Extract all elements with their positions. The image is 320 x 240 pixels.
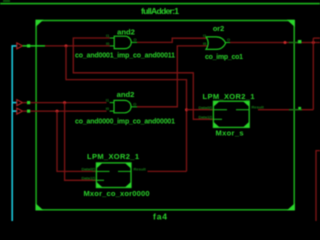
svg-text:Data1[]: Data1[] [198, 115, 212, 120]
s boundary green segment [289, 109, 302, 111]
and2 U2 output stub O [131, 106, 137, 108]
wire a tap down to xor0000 Data1 [65, 103, 97, 181]
and2 U2 input stub I0 [110, 110, 114, 112]
wire cin to and2 U1 I0 [45, 45, 110, 47]
and2 U1 input stub I1 [110, 37, 114, 39]
or2 U3 gate body [206, 37, 226, 50]
junction a tap [63, 101, 66, 104]
inner box corner triangle top-left [36, 20, 44, 27]
input port arrow b [17, 108, 23, 114]
svg-text:Result: Result [252, 105, 265, 110]
wire exit right edge [313, 37, 320, 39]
U5 pin stub Data1 inside [96, 179, 104, 181]
outer top frame line [0, 3, 320, 5]
U5 corner triangle TL [96, 163, 102, 169]
U4 pin stub Data1 inside [213, 118, 222, 120]
svg-text:co_and0000_imp_co_and00001: co_and0000_imp_co_and00001 [75, 118, 175, 125]
junction b tap [56, 110, 59, 113]
wire to Mxor_s Data0 [187, 109, 214, 111]
junction square on a wire [27, 101, 30, 104]
svg-text:and2: and2 [117, 90, 135, 99]
svg-text:O: O [134, 37, 137, 42]
wire and2 U1 I1 rail from xor loop [73, 38, 213, 119]
module inner box left edge [35, 20, 37, 210]
wire co/s vertical riser at right [312, 38, 314, 110]
junction cin tap [65, 44, 68, 47]
wire and2 U2 output to or2 I0 [137, 46, 208, 107]
svg-text:fullAdder:1: fullAdder:1 [141, 6, 179, 16]
svg-text:Mxor_co_xor0000: Mxor_co_xor0000 [84, 189, 150, 198]
co boundary square [298, 40, 302, 43]
U5 corner triangle TR [125, 163, 131, 169]
and2 U1 gate body [114, 36, 131, 48]
svg-text:co_imp_co1: co_imp_co1 [205, 54, 243, 61]
module inner box right edge [293, 20, 295, 210]
U4 corner triangle BL [213, 122, 219, 128]
U5 pin stub Result inside [118, 170, 131, 172]
svg-text:Data0[]: Data0[] [81, 167, 95, 172]
U4 pin stub Result inside [236, 109, 249, 111]
wire and2 U1 output to or2 I1 [137, 38, 208, 42]
cyan external net [12, 46, 17, 221]
U5 corner triangle BL [96, 182, 102, 188]
wire co output [230, 42, 320, 44]
svg-text:LPM_XOR2_1: LPM_XOR2_1 [203, 92, 255, 101]
and2 U1 input stub I0 [110, 45, 114, 47]
junction square on b wire [27, 110, 30, 113]
junction square on cin wire [27, 44, 30, 47]
module inner box bottom edge [36, 209, 295, 211]
U4 corner triangle TR [243, 101, 249, 107]
or2 U3 output stub O [226, 42, 230, 44]
wire s result [258, 109, 313, 111]
input port arrow a [17, 100, 23, 106]
svg-text:Data0[]: Data0[] [198, 105, 212, 110]
wire b [23, 110, 107, 112]
and2 U2 gate body [114, 100, 131, 112]
inner box corner triangle bottom-left [36, 203, 44, 210]
svg-text:fa4: fa4 [153, 212, 167, 222]
cyan stub to port b [12, 110, 17, 112]
wire cin green highlighted segment [23, 45, 46, 47]
wire a [23, 102, 107, 104]
svg-text:or2: or2 [213, 24, 224, 33]
inner box corner triangle bottom-right [287, 203, 295, 210]
wire xor0000 result [148, 170, 187, 172]
LPM_XOR2_1 U4 box (Mxor_s) [213, 101, 249, 127]
U4 pin stub Data0 inside [213, 109, 227, 111]
input port arrow cin [17, 43, 23, 49]
s boundary tick [298, 107, 301, 109]
U4 corner triangle BR [243, 122, 249, 128]
svg-text:Mxor_s: Mxor_s [216, 129, 244, 138]
inner box corner triangle top-right [287, 20, 295, 27]
U4 corner triangle TL [213, 101, 219, 107]
U5 pin stub Data0 inside [96, 170, 109, 172]
svg-text:and2: and2 [117, 27, 135, 36]
external red net right edge [316, 151, 320, 221]
and2 U2 input stub I1 [110, 102, 114, 104]
LPM_XOR2_1 U5 box (Mxor_co_xor0000) [96, 163, 131, 188]
svg-text:O: O [133, 101, 136, 106]
and2 U1 output stub O [131, 41, 137, 43]
U5 corner triangle BR [125, 182, 131, 188]
svg-text:O: O [227, 37, 230, 42]
module inner box top edge [36, 20, 295, 22]
wire cin tap down and across to xor column [66, 46, 187, 171]
junction on co wire [284, 41, 287, 44]
junction co at right riser [312, 41, 315, 44]
svg-text:co_and0001_imp_co_and00011: co_and0001_imp_co_and00011 [75, 52, 175, 59]
cyan stub to port a [12, 102, 17, 104]
svg-text:Data1[]: Data1[] [81, 176, 95, 181]
junction at xor net / Data0 [185, 108, 188, 111]
wire b tap down to xor0000 Data0 [57, 111, 96, 171]
top-left cropped label smudge [3, 0, 10, 2]
svg-text:Result: Result [134, 167, 147, 172]
svg-text:LPM_XOR2_1: LPM_XOR2_1 [87, 152, 139, 161]
co boundary green segment [289, 42, 302, 44]
